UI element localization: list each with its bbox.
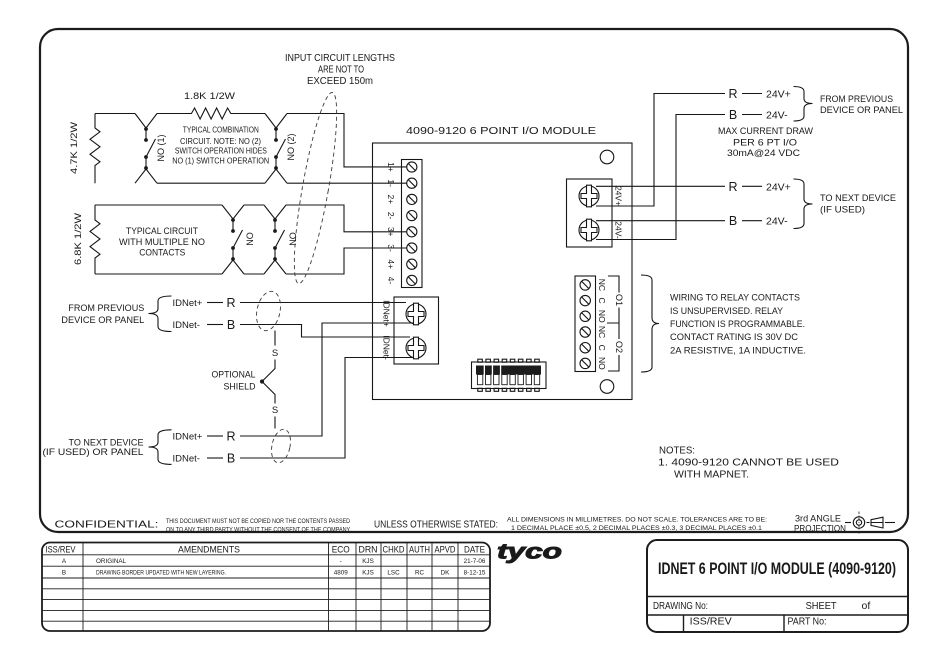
svg-text:DK: DK — [441, 570, 451, 577]
svg-text:TO NEXT DEVICE: TO NEXT DEVICE — [820, 193, 896, 204]
switch NO (1) — [135, 114, 157, 184]
svg-text:FUNCTION IS PROGRAMMABLE.: FUNCTION IS PROGRAMMABLE. — [670, 319, 805, 330]
svg-text:1+: 1+ — [386, 162, 396, 172]
svg-text:IDNet+: IDNet+ — [173, 298, 203, 309]
svg-text:21-7-06: 21-7-06 — [464, 558, 486, 565]
resistor R1 4.7K 1/2W (left edge, top circuit) — [90, 114, 100, 184]
svg-text:CHKD: CHKD — [383, 544, 405, 554]
svg-text:EXCEED 150m: EXCEED 150m — [307, 76, 373, 87]
note input circuit lengths — [285, 53, 395, 87]
svg-text:4+: 4+ — [386, 259, 396, 269]
svg-text:DEVICE OR PANEL: DEVICE OR PANEL — [820, 105, 903, 116]
svg-text:2-: 2- — [386, 212, 396, 220]
svg-text:R: R — [728, 87, 737, 101]
svg-text:SHIELD: SHIELD — [224, 381, 256, 392]
svg-text:24V+: 24V+ — [614, 186, 624, 206]
svg-text:4090-9120 6 POINT I/O MODU: 4090-9120 6 POINT I/O MODULE — [406, 125, 596, 137]
note max current draw — [718, 126, 813, 159]
title block grid — [647, 597, 908, 633]
svg-text:IDNet-: IDNet- — [173, 320, 200, 331]
wire 24V- to next device — [596, 220, 725, 222]
amendments table headers — [46, 544, 486, 554]
input terminal strip TB1 — [402, 160, 423, 288]
brace left group to-next — [149, 430, 172, 465]
brace left group from-previous — [149, 296, 172, 332]
svg-text:SWITCH OPERATION HIDES: SWITCH OPERATION HIDES — [175, 147, 267, 156]
label from previous device or panel (left) — [61, 303, 144, 326]
svg-text:30mA@24 VDC: 30mA@24 VDC — [727, 148, 800, 159]
amendments table grid — [42, 543, 490, 632]
note wiring to relay contacts — [670, 293, 806, 357]
svg-text:B: B — [62, 570, 66, 577]
svg-text:24V-: 24V- — [766, 110, 788, 122]
svg-text:B: B — [729, 108, 737, 122]
svg-text:MAX CURRENT DRAW: MAX CURRENT DRAW — [718, 126, 813, 137]
svg-text:FROM PREVIOUS: FROM PREVIOUS — [820, 94, 893, 105]
svg-text:-: - — [340, 558, 342, 565]
svg-text:IS UNSUPERVISED. RELAY: IS UNSUPERVISED. RELAY — [670, 306, 784, 317]
svg-text:AMENDMENTS: AMENDMENTS — [178, 544, 240, 554]
DIP switch S1 — [472, 359, 547, 391]
switch NO (2) — [265, 114, 287, 184]
svg-text:KJS: KJS — [362, 570, 374, 577]
drawing border frame — [40, 29, 908, 532]
svg-text:APVD: APVD — [435, 544, 456, 554]
svg-text:ARE NOT TO: ARE NOT TO — [318, 65, 364, 76]
svg-text:KJS: KJS — [362, 558, 374, 565]
wire IDNet- to next device riser — [240, 358, 414, 459]
svg-text:IDNET 6 POINT I/O MODULE (4090: IDNET 6 POINT I/O MODULE (4090-9120) — [658, 559, 896, 578]
relay group bracket O2 — [608, 323, 619, 371]
svg-text:R: R — [226, 430, 235, 444]
relay group bracket O1 — [607, 276, 619, 323]
brace right 24V to-next — [794, 179, 813, 229]
brace right relay note — [641, 275, 659, 372]
svg-text:tyco: tyco — [497, 540, 562, 564]
wire bottom rail of multiple-NO circuit — [95, 248, 407, 274]
switch NO (bottom circuit, first) — [222, 205, 244, 274]
svg-text:CONFIDENTIAL:: CONFIDENTIAL: — [55, 519, 159, 531]
svg-text:INPUT CIRCUIT LENGTHS: INPUT CIRCUIT LENGTHS — [285, 53, 395, 64]
svg-text:S: S — [272, 348, 278, 359]
TB3 screw 24V- (phillips) — [579, 219, 599, 241]
wire 24V+ from previous (riser) — [596, 94, 725, 207]
amendments row B — [62, 570, 486, 577]
svg-text:RC: RC — [415, 570, 425, 577]
mounting hole top — [600, 150, 614, 164]
TB1 pin labels 1+ .. 4- — [386, 162, 396, 284]
3rd angle projection symbol — [845, 512, 895, 534]
svg-text:24V-: 24V- — [766, 216, 788, 228]
wire 24V+ to next device — [596, 185, 725, 187]
svg-text:24V+: 24V+ — [766, 89, 791, 101]
svg-text:NC: NC — [597, 279, 607, 291]
svg-text:3rd ANGLE: 3rd ANGLE — [795, 514, 841, 524]
svg-text:DATE: DATE — [464, 544, 485, 554]
svg-text:ISS/REV: ISS/REV — [690, 615, 732, 627]
note text combination circuit — [172, 126, 269, 166]
svg-text:NO: NO — [288, 232, 298, 246]
wire IDNet+ from previous to TB2 — [240, 302, 406, 304]
svg-text:CONTACTS: CONTACTS — [139, 248, 185, 258]
svg-text:2+: 2+ — [386, 195, 396, 205]
svg-text:of: of — [862, 600, 871, 612]
cable ellipse from-previous (dashed) — [253, 289, 284, 333]
wire IDNet- from previous to TB2 (with jog) — [240, 325, 410, 338]
shield splice node — [260, 379, 264, 383]
shield conductor with S markers — [262, 331, 275, 429]
svg-text:24V-: 24V- — [614, 221, 624, 239]
svg-text:1-: 1- — [386, 179, 396, 187]
svg-text:4.7K 1/2W: 4.7K 1/2W — [69, 121, 79, 174]
svg-text:WITH MAPNET.: WITH MAPNET. — [674, 469, 749, 480]
3rd angle projection label — [794, 514, 846, 534]
svg-text:R: R — [728, 180, 737, 194]
svg-text:C: C — [597, 345, 607, 351]
svg-text:C: C — [597, 298, 607, 304]
svg-text:THIS DOCUMENT MUST NOT BE COPI: THIS DOCUMENT MUST NOT BE COPIED NOR THE… — [166, 518, 350, 525]
TB2 labels IDNet+ / IDNet- — [382, 300, 392, 360]
svg-text:IDNet+: IDNet+ — [173, 431, 203, 442]
svg-text:WITH MULTIPLE NO: WITH MULTIPLE NO — [119, 237, 205, 247]
TB4 screws 1..6 with slashes — [580, 280, 590, 369]
svg-text:IDNet-: IDNet- — [173, 453, 200, 464]
svg-text:ORIGINAL: ORIGINAL — [96, 558, 127, 565]
brace right 24V from-previous — [794, 87, 813, 122]
svg-text:PART No:: PART No: — [788, 615, 827, 627]
svg-text:OPTIONAL: OPTIONAL — [212, 369, 256, 380]
svg-text:NO: NO — [245, 232, 255, 246]
svg-text:ON TO ANY THIRD PARTY WITHOUT: ON TO ANY THIRD PARTY WITHOUT THE CONSEN… — [166, 527, 351, 534]
svg-text:CIRCUIT. NOTE: NO (2): CIRCUIT. NOTE: NO (2) — [180, 137, 261, 146]
svg-text:NOTES:: NOTES: — [659, 445, 695, 456]
relay contact terminal strip TB4 — [575, 276, 596, 372]
svg-text:4-: 4- — [386, 277, 396, 285]
resistor R3 6.8K 1/2W (left edge, bottom circuit) — [90, 205, 100, 274]
optional shield label — [212, 369, 256, 392]
svg-text:(IF USED) OR PANEL: (IF USED) OR PANEL — [43, 447, 144, 458]
TB1 screws 1..8 with slashes — [407, 162, 417, 286]
svg-text:(IF USED): (IF USED) — [820, 204, 865, 215]
svg-text:B: B — [729, 214, 737, 228]
svg-text:SHEET: SHEET — [806, 600, 838, 612]
svg-text:LSC: LSC — [387, 570, 400, 577]
svg-text:NO: NO — [597, 310, 607, 323]
svg-text:FROM PREVIOUS: FROM PREVIOUS — [68, 303, 144, 314]
notes block — [658, 445, 839, 480]
svg-text:NC: NC — [597, 326, 607, 338]
svg-text:1. 4090-9120 CANNOT BE USED: 1. 4090-9120 CANNOT BE USED — [658, 458, 839, 469]
svg-text:B: B — [227, 318, 235, 332]
wire IDNet+ to next device riser — [240, 323, 414, 436]
svg-text:ISS/REV: ISS/REV — [46, 544, 76, 554]
label from previous device or panel (right) — [820, 94, 903, 116]
svg-text:ECO: ECO — [332, 544, 350, 554]
svg-text:NO (1) SWITCH OPERATION: NO (1) SWITCH OPERATION — [172, 157, 269, 166]
module U1 outline — [373, 143, 633, 400]
svg-text:IDNet-: IDNet- — [382, 335, 392, 360]
svg-text:TYPICAL COMBINATION: TYPICAL COMBINATION — [183, 126, 259, 135]
amendments table frame — [42, 543, 490, 632]
label to next device (right) — [820, 193, 896, 215]
TB2 screw IDNet- (phillips) — [406, 337, 426, 359]
svg-text:4809: 4809 — [334, 570, 349, 577]
svg-text:AUTH: AUTH — [409, 544, 430, 554]
wire top rail of combination circuit — [95, 113, 135, 115]
cable ellipse to-next (dashed) — [269, 428, 294, 465]
svg-text:S: S — [272, 405, 278, 416]
svg-text:NO (2): NO (2) — [286, 133, 296, 160]
resistor R2 1.8K 1/2W (horizontal, top rail) — [157, 108, 265, 119]
drawing no / sheet row — [653, 600, 870, 612]
TB2 screw IDNet+ (phillips) — [406, 303, 426, 325]
note text multiple NO contacts — [119, 226, 205, 258]
wire bottom rail of combination circuit to terminal 1- — [157, 182, 407, 184]
svg-text:8-12-15: 8-12-15 — [464, 570, 486, 577]
svg-text:TYPICAL CIRCUIT: TYPICAL CIRCUIT — [126, 226, 198, 236]
wire 24V- from previous (riser) — [596, 115, 725, 240]
IDNet terminal block TB2 — [394, 297, 439, 364]
mounting hole bottom — [600, 380, 614, 394]
svg-text:DRN: DRN — [359, 544, 378, 554]
24V terminal block TB3 — [567, 179, 613, 247]
input circuit boundary ellipse (dashed) — [286, 90, 345, 286]
iss/rev part no row — [690, 615, 827, 627]
svg-text:6.8K 1/2W: 6.8K 1/2W — [73, 212, 83, 265]
svg-text:O1: O1 — [614, 294, 624, 306]
svg-text:DRAWING BORDER UPDATED WITH NE: DRAWING BORDER UPDATED WITH NEW LAYERING… — [96, 570, 226, 577]
svg-text:CONTACT RATING IS 30V DC: CONTACT RATING IS 30V DC — [670, 332, 798, 343]
label to next device (left) — [43, 437, 144, 458]
svg-text:WIRING TO RELAY CONTACTS: WIRING TO RELAY CONTACTS — [670, 293, 800, 304]
svg-text:3-: 3- — [386, 244, 396, 252]
svg-text:B: B — [227, 452, 235, 466]
svg-text:2A RESISTIVE, 1A INDUCTIVE.: 2A RESISTIVE, 1A INDUCTIVE. — [670, 345, 806, 356]
switch NO (bottom circuit, second) — [264, 205, 286, 274]
svg-text:24V+: 24V+ — [766, 181, 791, 193]
svg-text:NO (1): NO (1) — [156, 134, 166, 161]
svg-text:3+: 3+ — [386, 227, 396, 237]
wire top rail of multiple-NO circuit — [95, 205, 407, 232]
svg-text:DRAWING No:: DRAWING No: — [653, 600, 708, 612]
wire top rail right segment to terminal 1+ — [287, 114, 407, 167]
svg-text:PROJECTION: PROJECTION — [794, 524, 846, 534]
title block frame — [647, 540, 908, 632]
svg-text:1.8K 1/2W: 1.8K 1/2W — [184, 91, 236, 101]
svg-text:NO: NO — [597, 357, 607, 370]
TB4 labels NC C NO NC C NO — [597, 279, 607, 370]
svg-text:O2: O2 — [614, 341, 624, 353]
svg-text:UNLESS OTHERWISE STATED:: UNLESS OTHERWISE STATED: — [374, 519, 498, 531]
svg-text:ALL DIMENSIONS IN MILLIMETRES.: ALL DIMENSIONS IN MILLIMETRES. DO NOT SC… — [507, 517, 767, 524]
svg-text:R: R — [226, 296, 235, 310]
svg-text:1 DECIMAL PLACE ±0.5, 2 DECIMA: 1 DECIMAL PLACE ±0.5, 2 DECIMAL PLACES ±… — [511, 525, 762, 532]
svg-text:DEVICE OR PANEL: DEVICE OR PANEL — [61, 315, 144, 326]
TB3 screw 24V+ (phillips) — [579, 185, 599, 207]
TB3 labels 24V+ / 24V- — [614, 186, 624, 239]
amendments row A — [62, 558, 486, 565]
